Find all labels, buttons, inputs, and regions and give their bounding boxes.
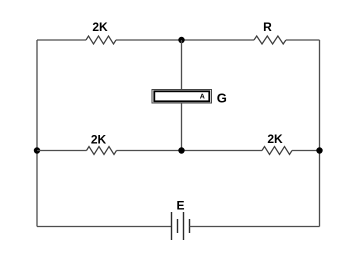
node B left junction bbox=[34, 147, 40, 153]
svg-text:E: E bbox=[176, 199, 184, 213]
wire bottom-left segment bbox=[37, 226, 172, 228]
node C center junction bbox=[178, 147, 184, 153]
svg-text:2K: 2K bbox=[267, 132, 283, 146]
battery E bbox=[172, 199, 190, 241]
wire middle-right segment bbox=[292, 150, 320, 152]
wire top-left segment bbox=[37, 39, 86, 41]
wire middle-center segment bbox=[117, 150, 263, 152]
svg-text:2K: 2K bbox=[92, 20, 108, 34]
node D right junction bbox=[316, 147, 322, 153]
svg-text:G: G bbox=[217, 91, 227, 106]
wire galvanometer upper lead bbox=[181, 40, 183, 90]
resistor R3 2K middle-left bbox=[87, 133, 117, 155]
galvanometer G bbox=[152, 90, 227, 106]
svg-text:2K: 2K bbox=[91, 133, 107, 147]
svg-text:A: A bbox=[200, 93, 205, 100]
svg-text:R: R bbox=[263, 20, 272, 34]
resistor R1 2K top-left bbox=[86, 20, 116, 44]
wire middle-left segment bbox=[37, 150, 87, 152]
resistor R top-right bbox=[254, 20, 286, 44]
wire right vertical bbox=[319, 40, 321, 227]
resistor R4 2K middle-right bbox=[262, 132, 292, 155]
wire top-right segment bbox=[286, 39, 320, 41]
wire bottom-right segment bbox=[190, 226, 320, 228]
wire top-middle segment bbox=[116, 39, 254, 41]
node A top-center junction bbox=[178, 37, 184, 43]
wire galvanometer lower lead bbox=[181, 103, 183, 151]
wire left vertical bbox=[36, 40, 38, 227]
